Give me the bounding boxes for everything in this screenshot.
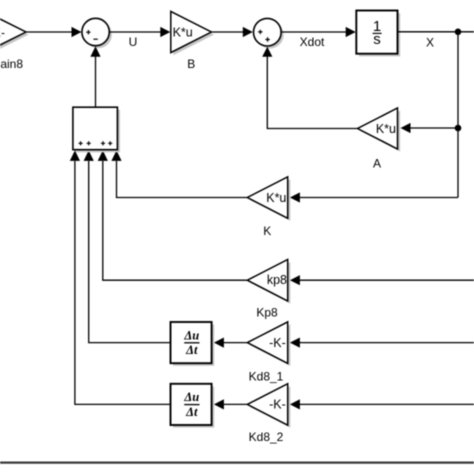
gain B (K*u)	[171, 11, 214, 55]
svg-text:s: s	[373, 31, 381, 48]
gain A (K*u, left-pointing)	[358, 108, 401, 152]
wire sum S3 output to Sum1 bottom input	[90, 46, 100, 107]
wire Sum1 to B (signal U)	[109, 27, 170, 37]
wire B to Sum2	[211, 27, 252, 37]
wire from right edge to gain Kp8	[290, 275, 474, 285]
junction node at X line	[455, 29, 462, 36]
svg-text:-K-: -K-	[269, 336, 286, 350]
wire Sum2 to Integrator (signal Xdot)	[281, 27, 356, 37]
gain Gain8 (clipped at left edge)	[0, 12, 29, 56]
sum S3 (rectangular sum block ++++ )	[73, 107, 120, 152]
svg-text:Δt: Δt	[185, 343, 198, 357]
gain Kd8_1 (-K-, left-pointing)	[247, 322, 290, 366]
wire derivative D2 output to sum block port 1	[70, 150, 171, 404]
svg-text:B: B	[187, 57, 195, 71]
wire junction to gain A	[401, 123, 459, 133]
wire gain Kd8_2 to derivative block 2	[214, 399, 247, 409]
svg-text:Kd8_2: Kd8_2	[249, 430, 284, 444]
svg-text:Kd8_1: Kd8_1	[249, 369, 284, 383]
svg-text:K*u: K*u	[376, 122, 396, 136]
svg-text:kp8: kp8	[267, 273, 287, 287]
svg-text:U: U	[129, 35, 138, 49]
wire Gain8 to Sum1	[26, 27, 82, 37]
bottom border line	[0, 462, 474, 464]
svg-text:K: K	[263, 224, 271, 238]
wire feedback down to gain K	[290, 192, 458, 202]
gain kp8 (left-pointing)	[247, 260, 290, 304]
wire gain kp8 output to sum block port 3	[98, 150, 248, 280]
integrator block 1/s	[356, 11, 400, 57]
svg-text:K*u: K*u	[173, 26, 193, 40]
svg-text:Δu: Δu	[183, 390, 199, 404]
svg-text:-K-: -K-	[0, 26, 5, 40]
wire gain K output to sum block port 4	[111, 150, 247, 197]
wire from right edge to gain Kd8_2	[290, 399, 474, 409]
wire gain A to Sum2 bottom input	[262, 47, 357, 129]
svg-text:K*u: K*u	[266, 191, 286, 205]
derivative block D2 (Δu/Δt)	[171, 384, 215, 428]
wire vertical feedback from X down	[457, 32, 459, 198]
svg-text:Kp8: Kp8	[256, 306, 278, 320]
gain K (K*u, left-pointing)	[247, 177, 290, 221]
wire from right edge to gain Kd8_1	[290, 338, 474, 348]
svg-text:Gain8: Gain8	[0, 57, 23, 71]
wire gain Kd8_1 to derivative block 1	[214, 338, 247, 348]
junction node at A branch	[455, 125, 462, 132]
svg-text:A: A	[373, 156, 381, 170]
svg-text:X: X	[426, 35, 434, 49]
svg-text:Δu: Δu	[183, 328, 199, 342]
svg-text:Xdot: Xdot	[300, 35, 325, 49]
derivative block D1 (Δu/Δt)	[171, 322, 215, 366]
gain Kd8_2 (-K-, left-pointing)	[247, 384, 290, 428]
sum S1 (circle, +/-)	[82, 18, 112, 48]
svg-text:-K-: -K-	[269, 398, 286, 412]
wire derivative D1 output to sum block port 2	[84, 150, 171, 342]
wire Integrator to right edge (signal X)	[398, 31, 474, 33]
sum S2 (circle, +/+)	[253, 18, 283, 48]
svg-text:Δt: Δt	[185, 405, 198, 419]
